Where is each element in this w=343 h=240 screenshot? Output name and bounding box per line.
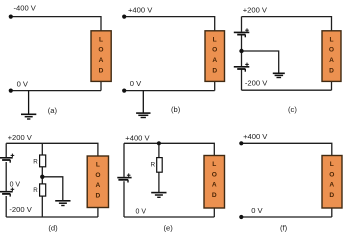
battery B2 (d): [0, 192, 13, 197]
svg-text:L: L: [213, 36, 217, 43]
svg-text:O: O: [212, 171, 217, 178]
wire bottom rail (d): [6, 216, 98, 218]
node +400V terminal (b): [122, 15, 126, 19]
svg-text:O: O: [329, 171, 334, 178]
battery B1 (e): [117, 178, 131, 183]
svg-text:O: O: [212, 47, 217, 54]
svg-text:(a): (a): [48, 106, 58, 115]
svg-text:O: O: [329, 47, 334, 54]
svg-text:+400 V: +400 V: [243, 132, 268, 141]
svg-text:O: O: [98, 47, 103, 54]
svg-text:A: A: [329, 57, 334, 64]
load LOAD (b): [205, 31, 225, 82]
svg-text:+200 V: +200 V: [8, 133, 33, 142]
svg-text:R: R: [33, 187, 38, 194]
node +400V terminal (f): [239, 141, 243, 145]
node 0V terminal (f): [239, 215, 243, 219]
wire left branch upper (c): [241, 17, 243, 32]
load LOAD (c): [322, 31, 341, 82]
node centre tap (c): [239, 49, 243, 53]
wire top rail (e): [124, 143, 214, 155]
svg-text:(e): (e): [164, 223, 174, 232]
svg-text:+200 V: +200 V: [243, 6, 268, 15]
wire bottom rail (a): [11, 90, 101, 92]
svg-text:L: L: [329, 36, 333, 43]
svg-text:(f): (f): [280, 223, 288, 232]
wire left branch lower (e): [123, 181, 125, 217]
svg-text:0 V: 0 V: [17, 79, 29, 88]
wire bottom rail (f): [241, 216, 331, 218]
wire left branch lower (d): [5, 196, 7, 217]
wire load stem (b): [214, 81, 216, 90]
svg-text:L: L: [330, 161, 334, 168]
svg-text:A: A: [329, 182, 334, 189]
wire resistor branch lower (d): [41, 196, 43, 217]
node divider tap (d): [40, 175, 44, 179]
wire left branch upper (d): [5, 143, 7, 157]
wire bottom rail (b): [124, 90, 215, 92]
ground (a): [21, 91, 36, 119]
wire top rail (c): [242, 17, 332, 31]
svg-text:-200 V: -200 V: [245, 78, 268, 87]
svg-text:O: O: [95, 172, 100, 179]
wire left branch middle (c): [241, 35, 243, 66]
wire ground tap (c): [242, 51, 279, 73]
ground (c): [273, 73, 285, 77]
svg-text:+400 V: +400 V: [125, 134, 150, 143]
svg-text:0 V: 0 V: [10, 182, 21, 189]
node 0V terminal (b): [122, 89, 126, 93]
svg-text:-400 V: -400 V: [14, 4, 37, 13]
wire bottom rail (c): [242, 89, 332, 91]
svg-text:D: D: [99, 67, 104, 74]
svg-text:0 V: 0 V: [130, 79, 142, 88]
load LOAD (e): [204, 156, 225, 209]
wire left branch lower (c): [241, 69, 243, 90]
svg-text:D: D: [96, 193, 101, 200]
label plus B2 (d): [11, 188, 15, 192]
node 0V terminal (a): [9, 89, 13, 93]
ground (b): [136, 91, 150, 118]
battery B1 (c): [234, 32, 250, 37]
wire load stem (a): [100, 81, 102, 90]
svg-text:A: A: [96, 182, 101, 189]
svg-text:L: L: [96, 161, 100, 168]
resistor R2 (d): [40, 184, 46, 196]
wire top rail (f): [241, 143, 331, 155]
wire left branch upper (e): [123, 143, 125, 177]
ground (e): [151, 193, 166, 198]
wire resistor branch lower (e): [158, 172, 160, 192]
svg-text:R: R: [151, 161, 156, 168]
wire load stem (d): [97, 208, 99, 218]
svg-text:L: L: [99, 36, 103, 43]
wire load stem (c): [331, 81, 333, 90]
wire ground tap (d): [42, 177, 63, 200]
svg-text:L: L: [212, 161, 216, 168]
svg-text:A: A: [99, 57, 104, 64]
wire resistor branch upper (d): [41, 143, 43, 155]
load LOAD (d): [87, 156, 108, 208]
battery B2 (c): [234, 67, 250, 72]
svg-text:0 V: 0 V: [136, 208, 147, 215]
wire bottom rail (e): [124, 216, 214, 218]
node resistor tap (e): [157, 141, 161, 145]
wire resistor branch upper (e): [158, 143, 160, 157]
load LOAD (f): [322, 156, 342, 209]
svg-text:(b): (b): [171, 105, 181, 114]
wire resistor branch middle (d): [41, 167, 43, 184]
svg-text:(d): (d): [48, 223, 58, 232]
svg-text:(c): (c): [288, 105, 297, 114]
svg-text:D: D: [212, 67, 217, 74]
battery B1 (d): [0, 158, 13, 163]
svg-text:D: D: [329, 192, 334, 199]
svg-text:D: D: [329, 67, 334, 74]
resistor R (e): [157, 158, 163, 173]
label plus B1 (c): [245, 28, 249, 32]
svg-text:A: A: [212, 57, 217, 64]
wire load stem (f): [331, 208, 333, 217]
node -400V terminal (a): [9, 15, 13, 19]
resistor R1 (d): [40, 155, 46, 167]
wire top rail (a): [11, 17, 101, 31]
svg-text:D: D: [212, 192, 217, 199]
wire load stem (e): [213, 208, 215, 217]
svg-text:+400 V: +400 V: [128, 5, 153, 14]
wire top rail (d): [6, 143, 98, 156]
label plus B1 (d): [11, 154, 15, 158]
svg-text:R: R: [33, 158, 38, 165]
wire top rail (b): [124, 17, 215, 31]
label plus B2 (c): [245, 63, 249, 67]
label plus B1 (e): [127, 173, 131, 177]
svg-text:0 V: 0 V: [251, 206, 263, 215]
load LOAD (a): [91, 31, 111, 82]
svg-text:-200 V: -200 V: [9, 205, 32, 214]
wire left branch middle (d): [5, 162, 7, 191]
svg-text:A: A: [212, 182, 217, 189]
ground (d): [55, 201, 70, 206]
